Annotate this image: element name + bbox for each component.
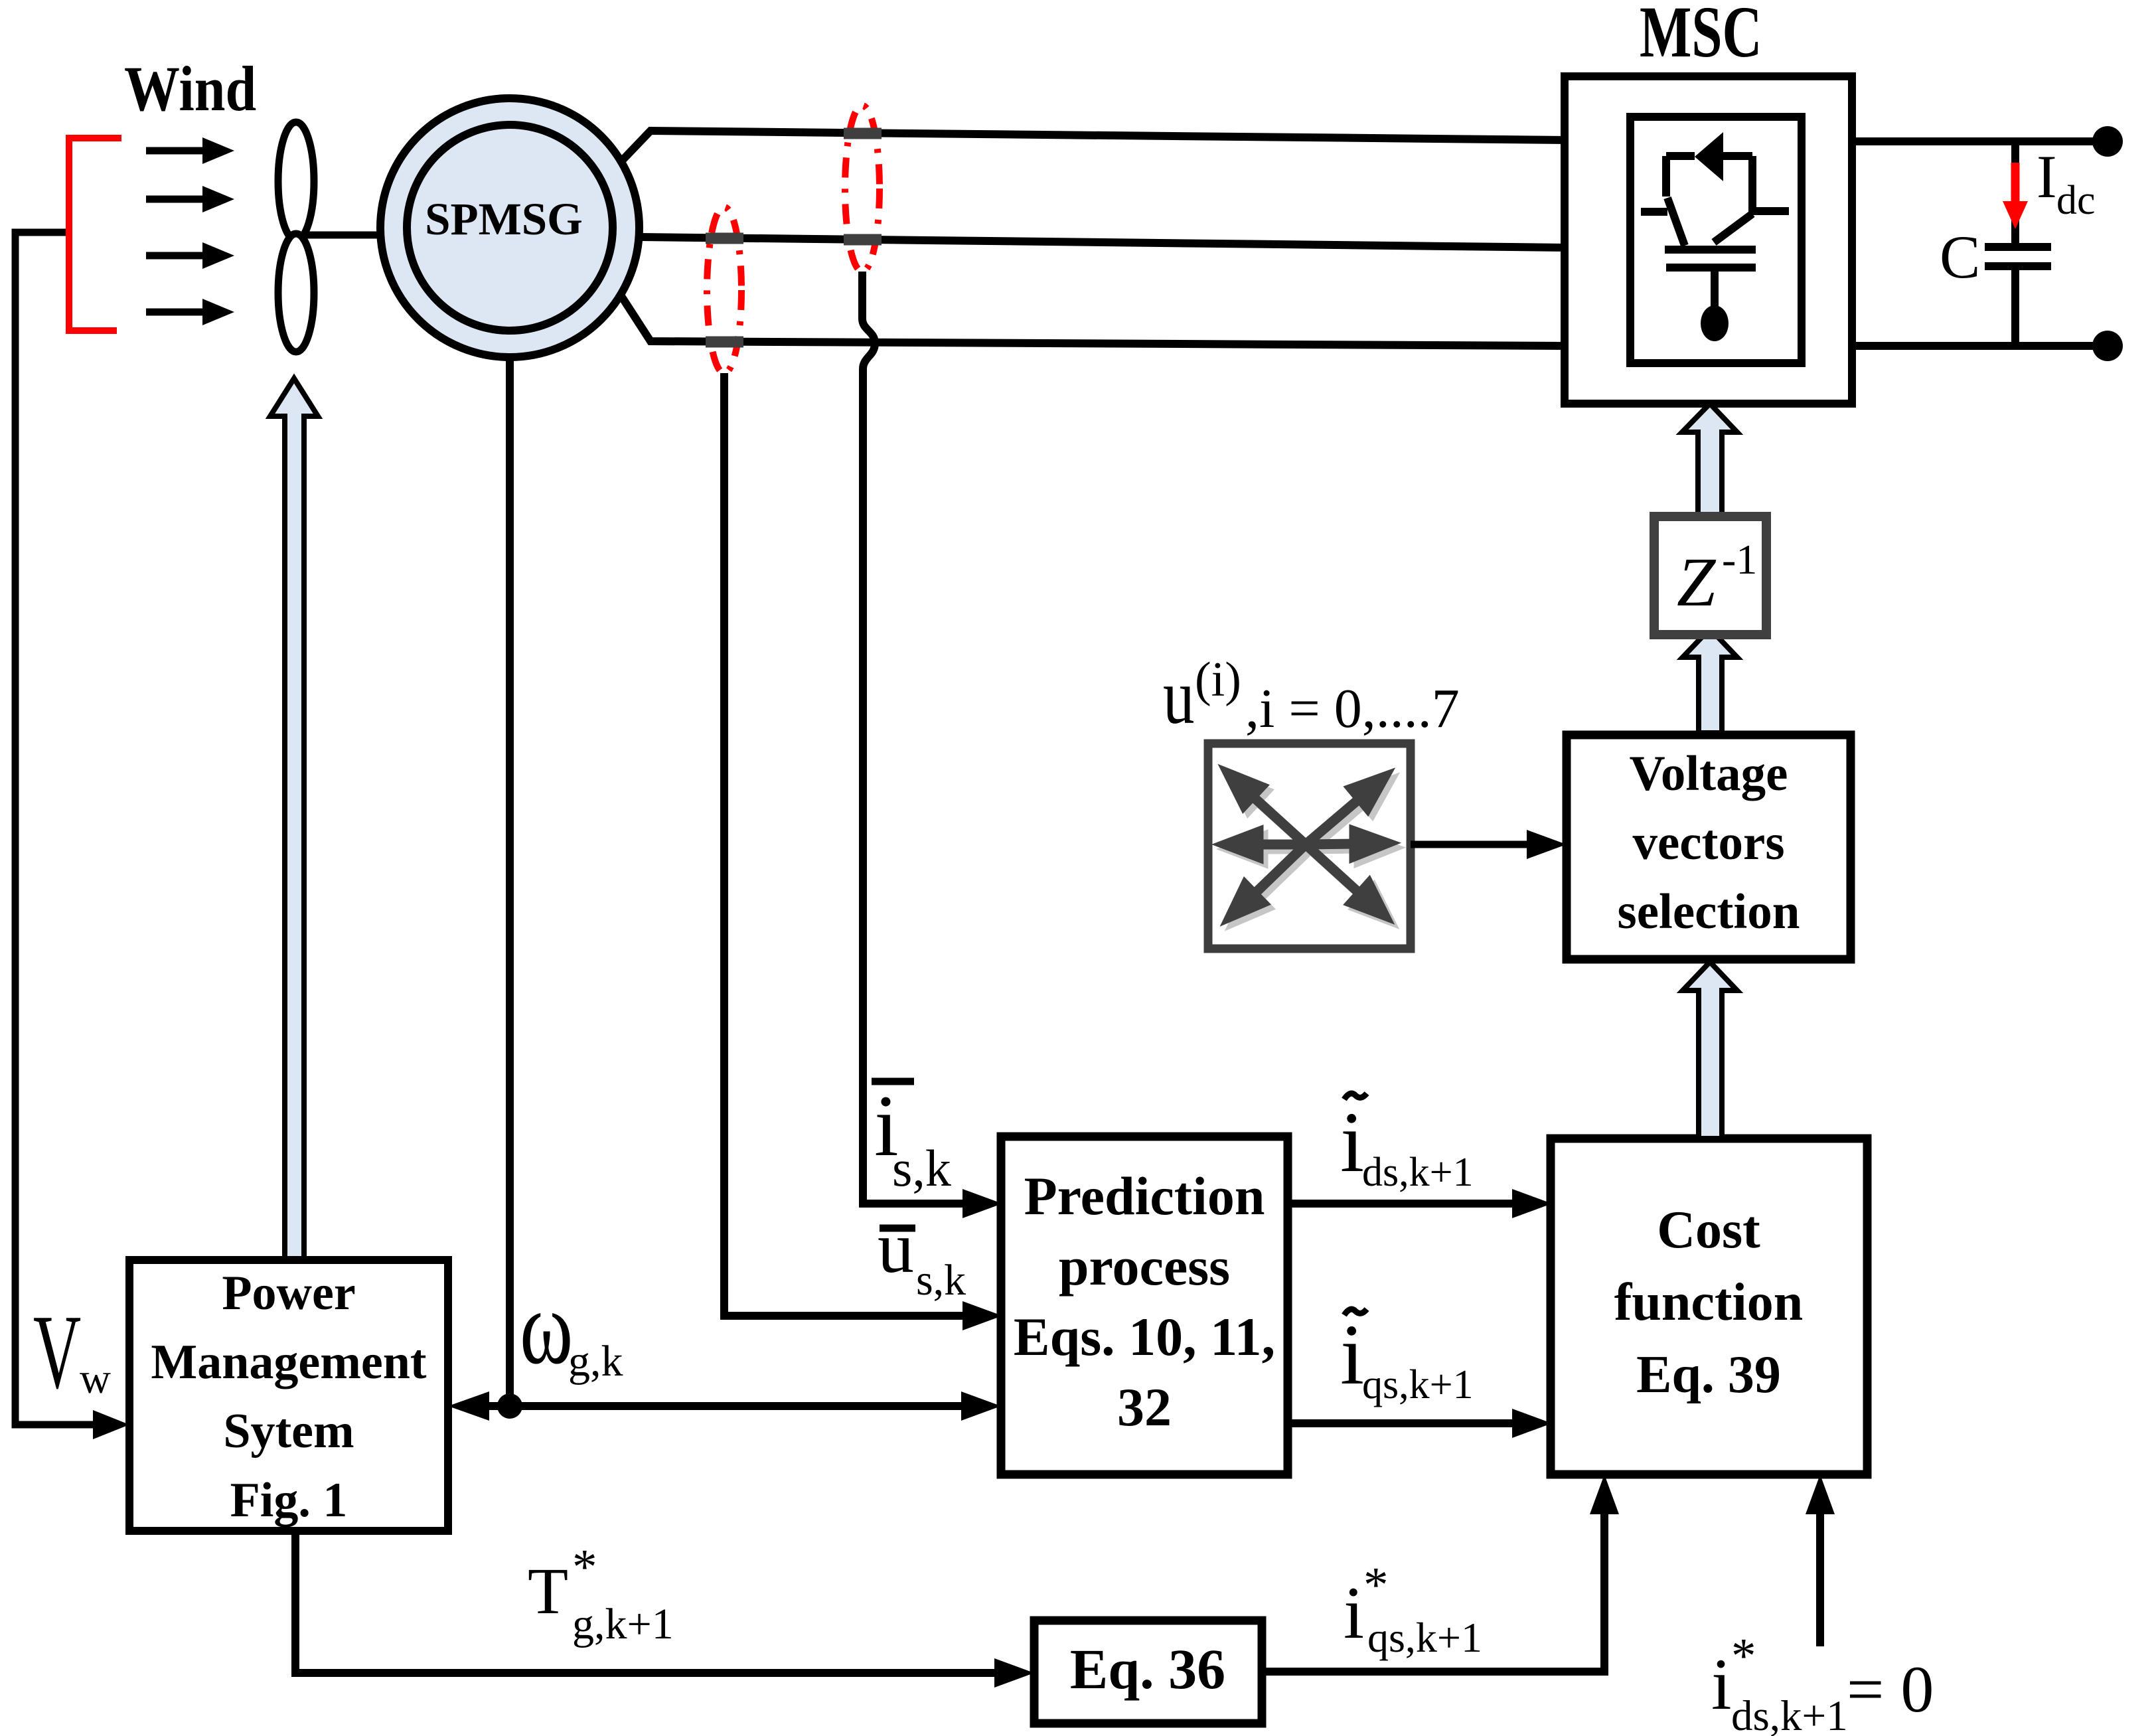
wind arrow 1 xyxy=(146,137,234,164)
red wind bracket xyxy=(69,138,121,331)
wire i*ds,k+1=0 reference into Cost function xyxy=(1816,1507,1824,1646)
wire i_sk measurement down to Prediction (with hop over bottom line) xyxy=(862,272,964,1204)
node dc- terminal xyxy=(2092,331,2123,361)
wire dc-link top xyxy=(1852,137,2108,145)
wire bottom phase line xyxy=(621,296,1567,346)
svg-text:i: i xyxy=(1340,1307,1364,1403)
emitter dot xyxy=(1701,305,1729,341)
label i_s,k with overbar xyxy=(872,1077,951,1197)
svg-text:Power: Power xyxy=(222,1266,355,1320)
node junction omega xyxy=(497,1393,522,1419)
svg-text:s,k: s,k xyxy=(892,1139,951,1197)
svg-text:function: function xyxy=(1614,1273,1804,1332)
turbine blade upper xyxy=(278,122,314,240)
block Prediction process xyxy=(1001,1137,1288,1474)
capacitor C xyxy=(1940,141,2051,346)
svg-text:MSC: MSC xyxy=(1640,0,1762,73)
wire u_sk measurement down to Prediction xyxy=(724,373,964,1316)
transistor IGBT with diode inside MSC xyxy=(1641,156,1789,306)
svg-text:Fig. 1: Fig. 1 xyxy=(230,1473,348,1528)
svg-text:32: 32 xyxy=(1117,1377,1172,1437)
block MSC converter xyxy=(1565,76,1852,404)
svg-text:Cost: Cost xyxy=(1657,1201,1760,1259)
wire omega vertical from generator bottom xyxy=(506,352,514,1406)
svg-text:qs,k+1: qs,k+1 xyxy=(1367,1614,1482,1661)
svg-text:u: u xyxy=(1163,653,1194,740)
svg-text:process: process xyxy=(1059,1236,1230,1297)
sensor dark segment on middle line xyxy=(844,234,882,246)
diode arrow xyxy=(1695,132,1723,181)
wind arrow 3 xyxy=(146,242,234,269)
svg-text:SPMSG: SPMSG xyxy=(425,194,583,244)
svg-text:g,k+1: g,k+1 xyxy=(572,1600,674,1648)
label u^(i), i=0,....7 xyxy=(1163,653,1460,741)
node dc+ terminal xyxy=(2092,126,2123,157)
svg-text:Eqs. 10, 11,: Eqs. 10, 11, xyxy=(1014,1306,1275,1367)
block Power Management Sytem xyxy=(129,1260,448,1531)
wind arrow 2 xyxy=(146,186,234,212)
wire dc-link bottom xyxy=(1852,342,2108,350)
svg-text:Z: Z xyxy=(1677,543,1717,621)
current sensor ellipse (left, red dash-dot) xyxy=(707,207,741,373)
voltage sensor ellipse (right, red dash-dot) xyxy=(845,106,880,272)
svg-text:ds,k+1: ds,k+1 xyxy=(1362,1150,1474,1195)
svg-text:*: * xyxy=(1731,1628,1756,1684)
svg-text:,i = 0,....7: ,i = 0,....7 xyxy=(1245,678,1460,740)
block Cost function xyxy=(1551,1139,1867,1474)
svg-text:dc: dc xyxy=(2056,178,2096,223)
svg-text:I: I xyxy=(2037,143,2057,210)
turbine blade lower xyxy=(278,234,314,352)
wire i*qs,k+1 from Eq.36 to Cost function xyxy=(1263,1507,1604,1672)
wire prediction ids output to cost xyxy=(1288,1200,1515,1208)
sensor dark segment on top line xyxy=(844,128,882,139)
svg-text:= 0: = 0 xyxy=(1847,1652,1934,1726)
svg-text:ds,k+1: ds,k+1 xyxy=(1731,1692,1848,1736)
block u(i) voltage vector set xyxy=(1208,744,1411,949)
svg-text:C: C xyxy=(1940,223,1980,291)
svg-text:g,k: g,k xyxy=(568,1337,623,1385)
svg-text:(i): (i) xyxy=(1195,653,1241,707)
svg-text:V: V xyxy=(33,1293,81,1410)
label u_s,k with overbar xyxy=(878,1207,966,1304)
svg-text:selection: selection xyxy=(1618,884,1800,939)
svg-text:Wind: Wind xyxy=(124,53,256,125)
svg-text:ω: ω xyxy=(520,1268,573,1386)
svg-text:Prediction: Prediction xyxy=(1024,1166,1265,1226)
svg-text:*: * xyxy=(1363,1557,1389,1613)
wire Vw: from bracket down-left to PMS xyxy=(15,232,93,1425)
svg-text:T: T xyxy=(528,1554,568,1628)
wire u box to VVS xyxy=(1411,841,1527,848)
label i*_ds,k+1 = 0 xyxy=(1711,1628,1934,1736)
svg-text:w: w xyxy=(80,1355,111,1403)
svg-text:i: i xyxy=(1711,1644,1732,1725)
svg-text:vectors: vectors xyxy=(1632,815,1784,870)
label i*_qs,k+1 xyxy=(1344,1557,1482,1661)
block Z^-1 delay xyxy=(1654,516,1766,635)
u(i) arrows xyxy=(1225,773,1387,917)
label T*_g,k+1 xyxy=(528,1539,674,1648)
label omega_g,k xyxy=(520,1268,623,1386)
block Voltage vectors selection xyxy=(1567,735,1851,959)
svg-text:Sytem: Sytem xyxy=(223,1404,354,1459)
svg-text:i: i xyxy=(1344,1572,1364,1654)
label ~i_ds,k+1 xyxy=(1340,1093,1474,1195)
wire omega_g,k horizontal with double arrows xyxy=(465,1402,969,1410)
svg-text:Voltage: Voltage xyxy=(1630,746,1788,801)
wire prediction iqs output to cost xyxy=(1288,1419,1515,1427)
wire middle phase line xyxy=(640,237,1567,248)
sensor dark segment on bottom line xyxy=(706,337,743,348)
generator SPMSG xyxy=(380,98,639,357)
svg-text:u: u xyxy=(878,1207,914,1288)
block Eq. 36 xyxy=(1034,1620,1262,1723)
block arrow VVS to Z-1 xyxy=(1683,629,1737,733)
svg-text:s,k: s,k xyxy=(916,1256,966,1304)
sensor dark segment on middle line xyxy=(706,233,743,244)
wind arrow 4 xyxy=(146,299,234,325)
wire Tg,k+1 from PMS to Eq.36 xyxy=(295,1531,997,1673)
label ~i_qs,k+1 xyxy=(1340,1307,1474,1407)
svg-text:qs,k+1: qs,k+1 xyxy=(1362,1362,1474,1407)
svg-text:Eq. 36: Eq. 36 xyxy=(1070,1637,1225,1701)
block arrow Cost to VVS xyxy=(1683,962,1737,1139)
wire top phase line xyxy=(621,131,1567,161)
block arrow Z-1 to MSC xyxy=(1682,404,1737,516)
label Vw xyxy=(33,1293,111,1410)
svg-text:Management: Management xyxy=(151,1335,426,1389)
svg-text:Eq. 39: Eq. 39 xyxy=(1636,1346,1781,1404)
wire turbine hub shaft xyxy=(296,232,398,239)
svg-text:i: i xyxy=(1340,1095,1364,1190)
label Idc with red current arrow xyxy=(2003,143,2096,229)
svg-text:*: * xyxy=(572,1539,597,1595)
svg-text:-1: -1 xyxy=(1722,536,1757,583)
u(i) arrows shadow xyxy=(1230,778,1392,921)
block arrow PMS to turbine xyxy=(270,378,318,1260)
